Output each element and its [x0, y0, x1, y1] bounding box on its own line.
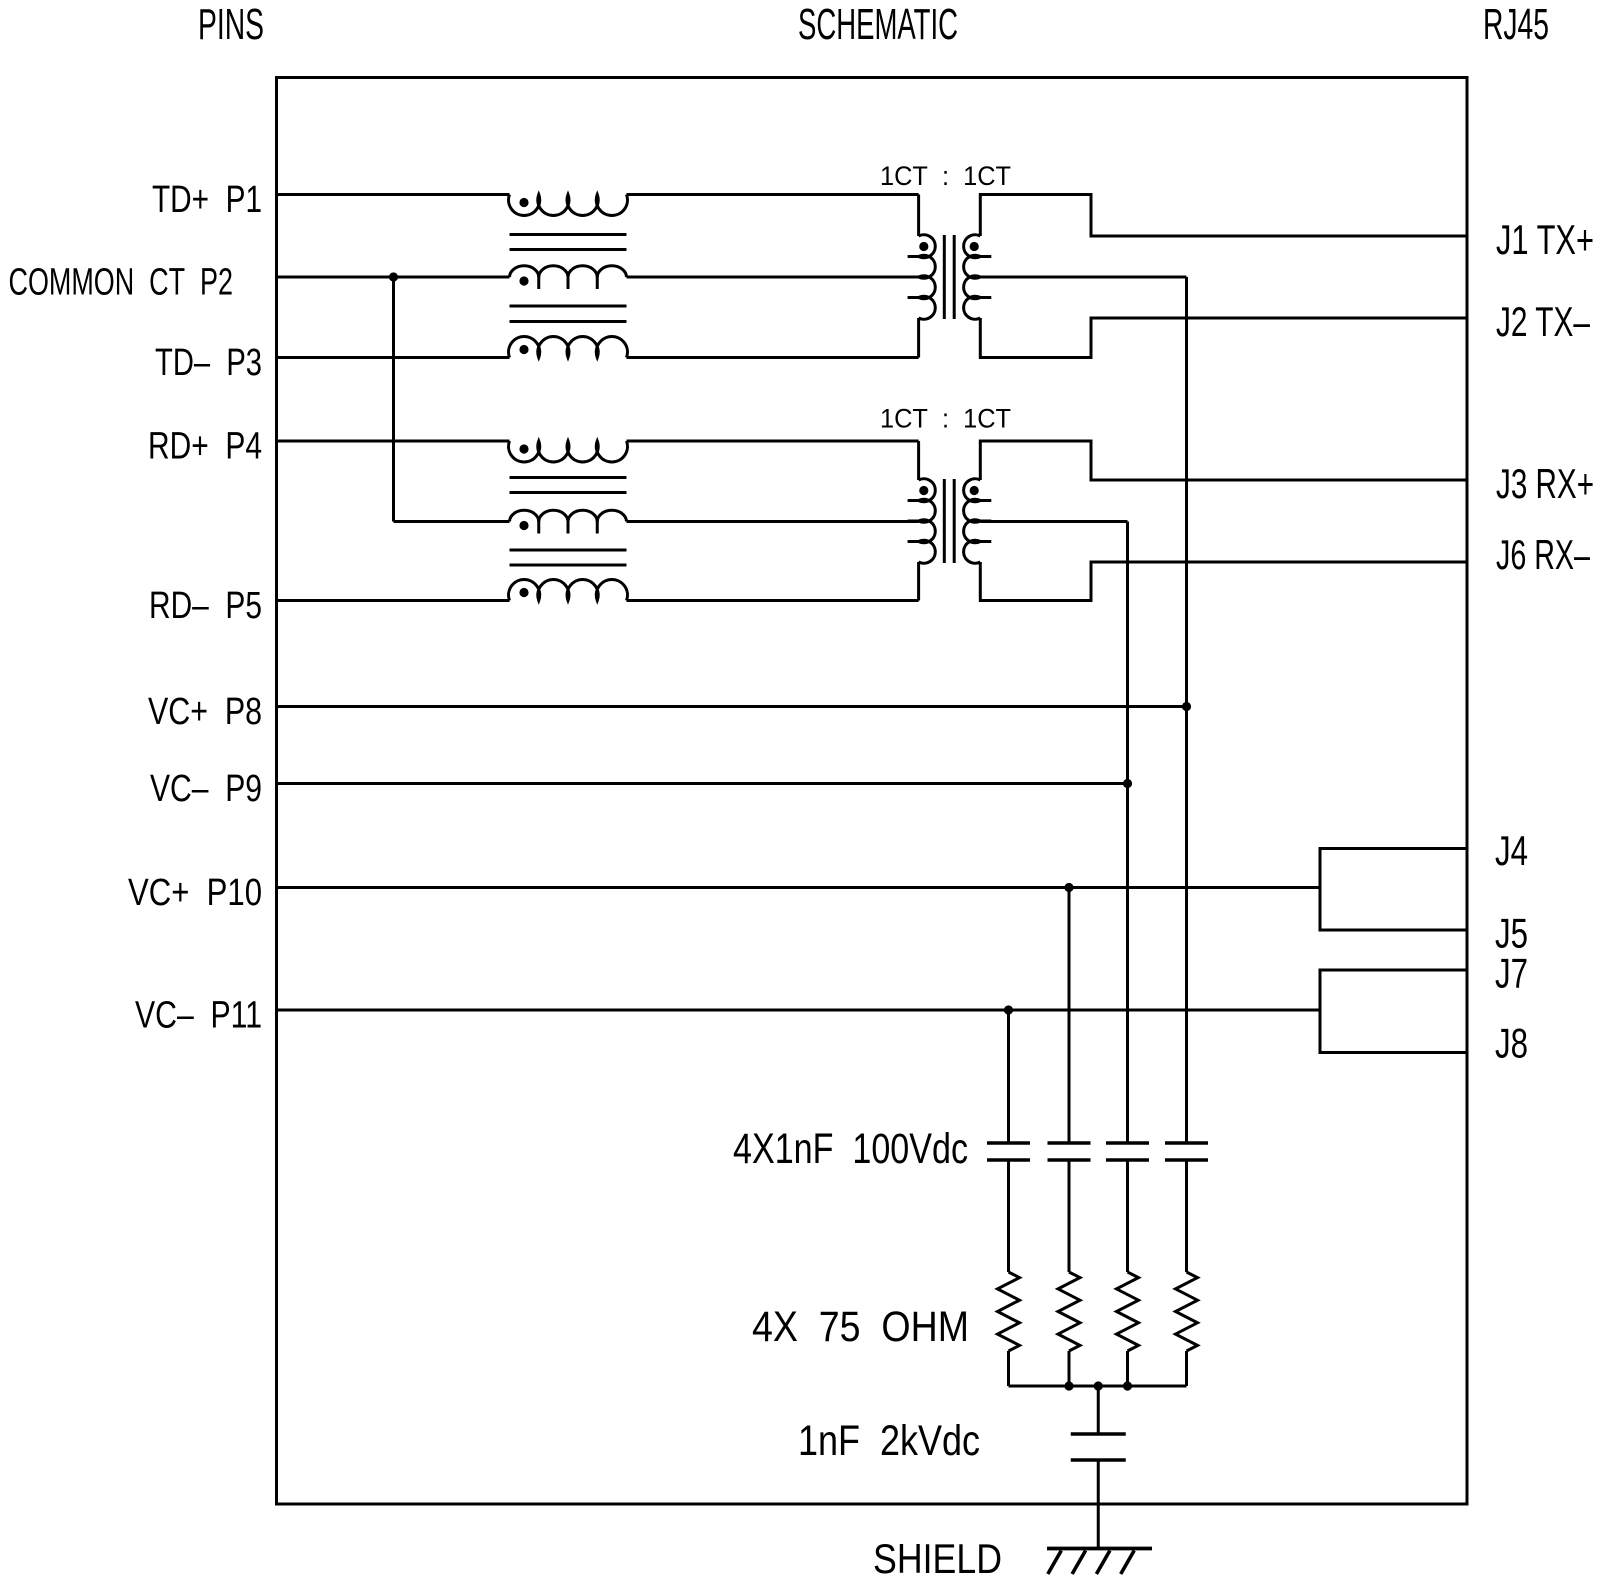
wire T2 secondary bottom staircase to J6 — [980, 562, 1467, 601]
svg-text:RJ45: RJ45 — [1483, 0, 1549, 49]
choke L1 winding 1 (TD+) — [509, 195, 628, 216]
svg-text:4X 75 OHM: 4X 75 OHM — [752, 1303, 969, 1351]
svg-text:RD+ P4: RD+ P4 — [148, 426, 262, 468]
wire R4 to bus — [1185, 1351, 1188, 1386]
transformer T1 primary bottom lead — [917, 318, 920, 358]
wire bus to C5 — [1097, 1386, 1100, 1434]
svg-text:TD– P3: TD– P3 — [155, 342, 262, 384]
choke L2 winding 2 ticks — [537, 521, 540, 534]
transformer T2 core — [943, 479, 946, 563]
svg-text:1CT : 1CT: 1CT : 1CT — [880, 404, 1011, 434]
svg-text:TD+ P1: TD+ P1 — [152, 179, 262, 221]
choke L1 winding 3 dot — [519, 345, 528, 354]
wire T2 secondary center tap — [980, 520, 1127, 523]
node bus junction 1 — [1064, 1381, 1073, 1390]
capacitor C2 plates — [1048, 1141, 1091, 1145]
choke L2 winding 1 (RD+) — [509, 441, 628, 462]
wire TD+ P1 to choke — [277, 193, 510, 196]
resistor R3 — [1117, 1272, 1139, 1351]
choke L1 core lines B — [510, 305, 627, 308]
capacitor C4 plates — [1165, 1141, 1208, 1145]
wire T2 secondary top staircase to J3 — [980, 441, 1467, 480]
transformer T2 secondary winding — [964, 479, 981, 564]
transformer T2 primary winding — [919, 479, 936, 564]
wire C5 to shield ground — [1097, 1460, 1100, 1549]
transformer T1 core — [943, 235, 946, 319]
svg-text:VC– P11: VC– P11 — [135, 995, 262, 1037]
transformer T1 primary dot — [919, 242, 928, 251]
transformer T2 primary bottom lead — [917, 562, 920, 601]
resistor R2 — [1058, 1272, 1080, 1351]
node VC- P9 junction — [1123, 779, 1132, 788]
wire J7/J8 fork — [1320, 970, 1467, 1053]
transformer T2 secondary dot — [970, 486, 979, 495]
resistor R4 — [1176, 1272, 1198, 1351]
choke L2 core lines A — [510, 476, 627, 479]
wire T1 secondary bottom staircase to J2 — [980, 318, 1467, 358]
node VC- P11 junction — [1004, 1005, 1013, 1014]
transformer T1 primary winding — [919, 235, 936, 320]
wire dropper from P11 — [1007, 1010, 1010, 1143]
choke L2 winding 3 dot — [519, 588, 528, 597]
svg-text:1nF 2kVdc: 1nF 2kVdc — [798, 1417, 980, 1465]
transformer T1 primary top lead — [917, 195, 920, 237]
wire C2 to R2 — [1068, 1160, 1071, 1272]
resistor R1 — [998, 1272, 1020, 1351]
choke L2 core lines B — [510, 549, 627, 552]
wire dropper from T1 tap — [1185, 277, 1188, 1143]
wire VC+ P8 — [277, 705, 1187, 708]
transformer T2 secondary ticks — [980, 499, 991, 502]
wire CT choke to transformer T1 tap — [627, 276, 919, 279]
wire TD- P3 to choke — [277, 356, 510, 359]
wire VC+ P10 — [277, 886, 1321, 889]
svg-text:J8: J8 — [1495, 1020, 1528, 1067]
svg-text:VC+ P8: VC+ P8 — [148, 691, 262, 733]
wire TD+ choke to transformer T1 — [627, 193, 919, 196]
wire T1 secondary center tap — [980, 276, 1186, 279]
transformer T2 primary top lead — [917, 441, 920, 480]
wire TD- choke to transformer T1 — [627, 356, 919, 359]
node VC+ P10 junction — [1064, 883, 1073, 892]
node CT P2 junction — [389, 272, 398, 281]
svg-text:J4: J4 — [1495, 827, 1528, 874]
transformer T1 secondary winding — [964, 235, 981, 319]
svg-text:J3 RX+: J3 RX+ — [1496, 460, 1594, 507]
wire R3 to bus — [1126, 1351, 1129, 1386]
transformer T2 primary ticks — [908, 499, 919, 502]
wire C4 to R4 — [1185, 1160, 1188, 1272]
choke L1 core lines A — [510, 233, 627, 236]
svg-text:J6 RX–: J6 RX– — [1496, 531, 1590, 578]
node bus junction 3 — [1123, 1381, 1132, 1390]
svg-text:PINS: PINS — [198, 0, 264, 49]
choke L1 winding 3 (TD-) — [509, 336, 628, 357]
wire COMMON CT P2 to choke — [277, 276, 510, 279]
choke L1 winding 2 ticks — [537, 276, 540, 289]
transformer T1 secondary dot — [970, 242, 979, 251]
svg-text:VC+ P10: VC+ P10 — [128, 872, 262, 914]
wire CT branch horizontal to choke — [394, 520, 510, 523]
wire dropper from T2 tap — [1126, 522, 1129, 1144]
svg-text:J2 TX–: J2 TX– — [1496, 298, 1590, 345]
svg-text:J7: J7 — [1495, 950, 1528, 997]
svg-text:J1 TX+: J1 TX+ — [1496, 216, 1594, 263]
wire RD- choke to transformer T2 — [627, 599, 919, 602]
transformer T1 primary ticks — [908, 255, 919, 258]
svg-text:COMMON CT P2: COMMON CT P2 — [9, 262, 234, 304]
wire RD+ choke to transformer T2 — [627, 440, 919, 443]
node VC+ P8 junction — [1182, 702, 1191, 711]
choke L2 winding 2 (CT2) — [510, 510, 627, 521]
wire CT branch vertical — [392, 277, 395, 522]
choke L2 winding 3 (RD-) — [509, 579, 628, 600]
wire dropper from P10 — [1068, 888, 1071, 1144]
ground shield symbol — [1047, 1547, 1152, 1551]
wire VC- P11 — [277, 1009, 1321, 1012]
wire RD+ P4 to choke — [277, 440, 510, 443]
choke L1 winding 2 dot — [519, 276, 528, 285]
svg-text:SCHEMATIC: SCHEMATIC — [798, 0, 958, 49]
node bus junction 2 — [1094, 1381, 1103, 1390]
wire C3 to R3 — [1126, 1160, 1129, 1272]
transformer T1 secondary ticks — [980, 255, 991, 258]
wire J4/J5 fork — [1320, 849, 1467, 931]
wire T1 secondary top staircase to J1 — [980, 195, 1467, 237]
svg-text:SHIELD: SHIELD — [873, 1535, 1002, 1582]
wire R2 to bus — [1068, 1351, 1071, 1386]
capacitor C5 plates — [1071, 1432, 1126, 1436]
wire C1 to R1 — [1007, 1160, 1010, 1272]
transformer T2 primary dot — [919, 486, 928, 495]
choke L1 winding 1 dot — [519, 198, 528, 207]
outer border box — [277, 78, 1468, 1505]
svg-text:RD– P5: RD– P5 — [149, 585, 262, 627]
svg-text:4X1nF 100Vdc: 4X1nF 100Vdc — [733, 1125, 968, 1173]
wire RD- P5 to choke — [277, 599, 510, 602]
capacitor C1 plates — [987, 1141, 1030, 1145]
choke L2 winding 1 dot — [519, 444, 528, 453]
wire resistor common bus — [1009, 1385, 1187, 1388]
capacitor C3 plates — [1106, 1141, 1149, 1145]
wire CT2 choke to transformer T2 tap — [627, 520, 919, 523]
wire R1 to bus — [1007, 1351, 1010, 1386]
svg-text:VC– P9: VC– P9 — [150, 768, 262, 810]
choke L1 winding 2 (CT) — [510, 266, 627, 277]
svg-text:1CT : 1CT: 1CT : 1CT — [880, 161, 1011, 191]
choke L2 winding 2 dot — [519, 521, 528, 530]
wire VC- P9 — [277, 782, 1128, 785]
